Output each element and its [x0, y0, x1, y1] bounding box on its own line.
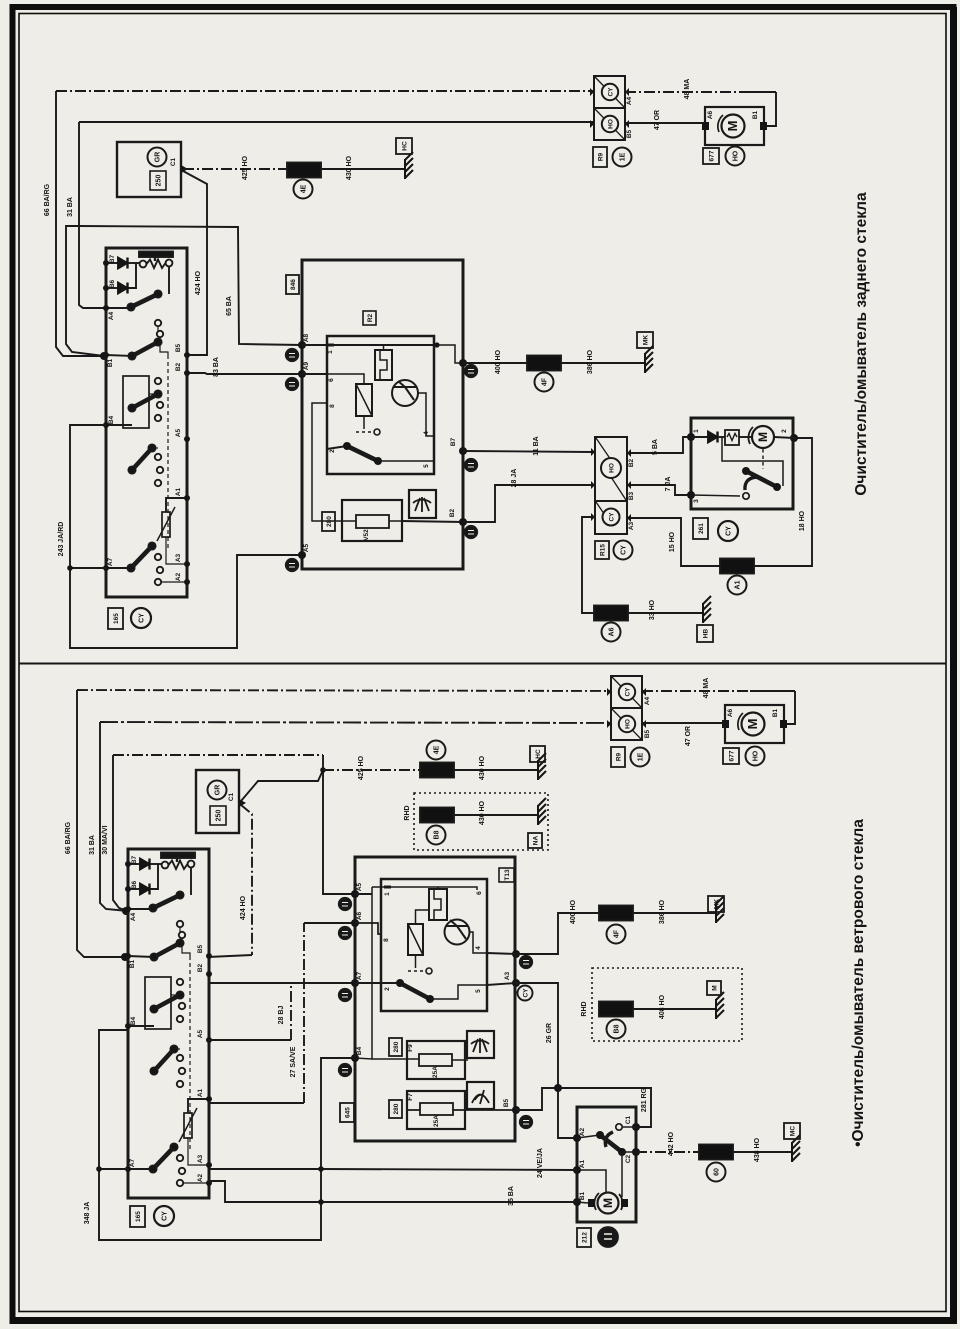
connector circle CY below block [614, 541, 633, 560]
svg-text:M: M [601, 1198, 615, 1208]
wire 400 HO module to ground MK [437, 345, 463, 363]
connector circle GR [208, 781, 227, 800]
wire 15 HO / 18 HO A3 to motor pin2 [631, 518, 721, 566]
relay unit 846 outer box [302, 260, 463, 569]
connector circle CY [154, 1206, 174, 1226]
box label 250 [210, 806, 226, 825]
svg-text:250: 250 [156, 175, 163, 187]
svg-text:243 JA/RD: 243 JA/RD [58, 522, 65, 557]
svg-text:424 HO: 424 HO [195, 270, 202, 295]
svg-text:60: 60 [714, 1168, 721, 1176]
node B1' junction [121, 953, 129, 961]
wire 442 HO C2 to ground MC [636, 1151, 699, 1153]
svg-text:1: 1 [384, 892, 391, 896]
svg-text:5: 5 [423, 464, 430, 468]
svg-text:6: 6 [328, 378, 335, 382]
svg-text:NA: NA [533, 836, 540, 846]
box label R15 [595, 541, 609, 559]
wire 425 HO [183, 168, 287, 170]
svg-text:B5: B5 [626, 129, 633, 138]
box label 250 [150, 171, 166, 190]
relay coil [408, 924, 423, 955]
svg-text:Очиститель/омыватель заднего с: Очиститель/омыватель заднего стекла [853, 192, 870, 496]
wire 83 BA B2 to relay A9 [187, 373, 302, 374]
wire 66 BA/RG vertical to B1 [56, 91, 104, 356]
wire 66 BA/RG dash-dot bus [56, 90, 594, 92]
relay coil [356, 384, 372, 416]
instrument panel 250 [117, 142, 181, 197]
svg-text:65 BA: 65 BA [226, 296, 233, 316]
svg-text:B1: B1 [772, 708, 779, 717]
svg-text:T13: T13 [504, 869, 511, 881]
svg-text:1E: 1E [620, 152, 627, 161]
wire 11 BA B7 to connector [459, 447, 467, 455]
svg-text:C1: C1 [170, 157, 177, 166]
svg-text:CY: CY [609, 512, 616, 522]
wire 47 OR [625, 122, 702, 124]
module pin 2 [355, 982, 381, 984]
svg-text:A9: A9 [303, 361, 310, 370]
wiper icon 2 [467, 1082, 494, 1109]
diode [691, 436, 708, 438]
svg-text:B4: B4 [356, 1046, 363, 1055]
washer jet icon [409, 490, 436, 518]
svg-text:MK: MK [643, 335, 650, 345]
connector R9/1E block bottom [607, 676, 646, 740]
svg-text:4E: 4E [301, 184, 308, 193]
svg-text:4F: 4F [614, 929, 621, 938]
svg-text:281 RG: 281 RG [641, 1087, 648, 1112]
wire 65 BA to relay A8 [79, 226, 302, 345]
svg-text:C1: C1 [625, 1115, 632, 1124]
module pin 8 [355, 923, 381, 934]
svg-text:A5: A5 [303, 543, 310, 552]
svg-text:212: 212 [582, 1232, 589, 1243]
washer pump motor 677' [722, 705, 787, 743]
node A4' junction [122, 907, 130, 915]
wire 424 HO C1 to B5' [241, 805, 252, 955]
wire C1 to 425 HO junction [241, 770, 323, 801]
module top rail [334, 344, 437, 346]
svg-text:A4: A4 [644, 696, 651, 705]
wire 35 BA A2' to B1 [208, 1181, 577, 1202]
node A7' [351, 979, 359, 987]
svg-text:386 HO: 386 HO [659, 899, 666, 924]
node A5 [298, 551, 306, 559]
svg-text:8: 8 [383, 938, 390, 942]
box label 165 [108, 608, 123, 629]
box label 261 [693, 518, 708, 539]
svg-text:24 VE/JA: 24 VE/JA [537, 1148, 544, 1178]
svg-text:C2: C2 [625, 1154, 632, 1163]
wire 31 BA vertical to A4 [79, 122, 106, 308]
svg-text:GR: GR [215, 785, 222, 796]
node B1 junction [100, 352, 108, 360]
module switch arm [381, 982, 400, 984]
svg-text:66 BA/RG: 66 BA/RG [44, 183, 51, 216]
svg-text:A6: A6 [727, 708, 734, 717]
svg-text:A3: A3 [628, 521, 635, 530]
svg-text:408 HO: 408 HO [659, 994, 666, 1019]
connector R9/1E block [590, 76, 629, 140]
module top rail [391, 887, 477, 890]
svg-text:A6: A6 [707, 110, 714, 119]
svg-text:66 BA/RG: 66 BA/RG [65, 821, 72, 854]
svg-text:M: M [756, 432, 770, 442]
wire 425 HO [323, 769, 421, 771]
svg-text:R15: R15 [600, 544, 607, 556]
wire 430 HO to ground [454, 769, 537, 771]
svg-text:7 JA: 7 JA [665, 477, 672, 492]
svg-text:677: 677 [709, 150, 716, 161]
svg-text:B5: B5 [503, 1098, 510, 1107]
column switch 165 [103, 248, 190, 597]
svg-text:35 BA: 35 BA [508, 1186, 515, 1206]
svg-text:B8: B8 [614, 1024, 621, 1033]
svg-text:1E: 1E [638, 752, 645, 761]
ground HC [405, 152, 413, 179]
svg-text:A8: A8 [303, 333, 310, 342]
svg-text:V52: V52 [363, 529, 370, 541]
node A6' [351, 919, 359, 927]
coil to contact dashed [363, 416, 365, 429]
node B5' on edge [512, 1106, 520, 1114]
svg-text:GR: GR [155, 152, 162, 163]
svg-text:CY: CY [162, 1211, 169, 1221]
svg-text:26 GR: 26 GR [546, 1023, 553, 1043]
box label 677 [703, 148, 719, 164]
svg-text:HO: HO [609, 463, 616, 473]
svg-text:430 HO: 430 HO [346, 155, 353, 180]
svg-text:B1: B1 [752, 110, 759, 119]
washer jet icon 1 [467, 1031, 494, 1058]
svg-text:280: 280 [326, 516, 333, 527]
svg-text:B1: B1 [579, 1191, 586, 1200]
motor [752, 426, 774, 448]
coil to contact dashed [415, 955, 417, 968]
fuse F7 [407, 1091, 465, 1129]
svg-text:27 SA/VE: 27 SA/VE [290, 1046, 297, 1077]
svg-text:A4: A4 [626, 96, 633, 105]
module pin 6 [302, 373, 327, 375]
wires inside motor box [577, 1170, 606, 1192]
wiper motor assembly bottom [577, 1107, 636, 1222]
svg-text:B5: B5 [644, 729, 651, 738]
rear wiper motor assembly [691, 418, 793, 509]
svg-text:5: 5 [475, 989, 482, 993]
svg-text:5 BA: 5 BA [652, 439, 659, 455]
svg-text:47 OR: 47 OR [685, 726, 692, 746]
node A8 [298, 341, 306, 349]
box label 165 [130, 1206, 145, 1227]
wire loop to pump [767, 92, 776, 126]
RHD variant box 2 [592, 968, 742, 1041]
module switch arm [327, 446, 347, 449]
wire branch to B1 junction [66, 226, 104, 356]
svg-text:165: 165 [135, 1211, 142, 1222]
wire 27 SA/VE A1' to relay A6' [208, 1102, 304, 1104]
svg-text:•Очиститель/омыватель ветровог: •Очиститель/омыватель ветрового стекла [850, 819, 867, 1147]
svg-text:846: 846 [290, 279, 297, 290]
wire 66 BA/RG vertical to B1 [77, 690, 125, 957]
splice B8 RHD [420, 808, 454, 823]
wire 348 JA ground loop B4-A7-B4' [99, 1030, 355, 1240]
svg-text:31 BA: 31 BA [89, 835, 96, 855]
node B4' [351, 1054, 359, 1062]
transistor to pin 4 [418, 393, 434, 436]
svg-text:R2: R2 [367, 313, 374, 322]
module pin 1 [355, 893, 372, 895]
svg-text:31 BA: 31 BA [67, 197, 74, 217]
box label 677 [723, 748, 739, 764]
svg-text:4F: 4F [542, 377, 549, 386]
relay module R2 inner box [327, 336, 434, 474]
box label 212 [577, 1228, 591, 1247]
svg-text:A3: A3 [504, 971, 511, 980]
wire 28 JA B2 to connector [402, 521, 463, 522]
svg-text:165: 165 [113, 613, 120, 624]
washer pump motor 677 [702, 107, 767, 145]
svg-text:1: 1 [327, 350, 334, 354]
box label 846 [286, 275, 299, 294]
svg-text:R9: R9 [616, 752, 623, 761]
svg-text:CY: CY [523, 988, 530, 998]
column switch 165' [125, 849, 212, 1198]
svg-text:48 MA: 48 MA [684, 79, 691, 100]
svg-text:400 HO: 400 HO [570, 899, 577, 924]
wire 31 BA bus [100, 722, 611, 723]
wire 66 BA/RG dash-dot bus [77, 690, 611, 691]
wire 28 BJ A5' to relay A7' [208, 1039, 291, 1041]
svg-text:HO: HO [733, 150, 740, 161]
svg-text:6: 6 [476, 891, 483, 895]
svg-text:M: M [712, 985, 719, 990]
svg-text:442 HO: 442 HO [668, 1131, 675, 1156]
svg-text:A2: A2 [579, 1127, 586, 1136]
park contact + arm [616, 1124, 622, 1130]
park switch [722, 437, 783, 486]
timer IC symbol [429, 889, 447, 920]
svg-text:CY: CY [621, 545, 628, 555]
svg-text:1: 1 [693, 429, 700, 433]
svg-text:C1: C1 [228, 792, 235, 801]
transistor to pin 4 [469, 932, 487, 953]
harness connector block mid [595, 437, 627, 534]
svg-text:28 JA: 28 JA [511, 469, 518, 488]
wire 48 MA dash-dot [642, 690, 750, 692]
internal feed vertical [355, 887, 372, 1059]
svg-text:430 HO: 430 HO [479, 755, 486, 780]
wire 47 OR [642, 722, 722, 724]
svg-text:250: 250 [216, 810, 223, 822]
svg-text:261: 261 [698, 523, 705, 534]
svg-text:280: 280 [393, 1103, 400, 1114]
thermal element [718, 436, 725, 438]
wire A7 stub [70, 567, 106, 569]
svg-text:83 BA: 83 BA [213, 357, 220, 377]
relay unit 645 outer box [355, 857, 515, 1141]
motor M [598, 1193, 619, 1214]
svg-text:2: 2 [781, 429, 788, 433]
svg-text:CY: CY [139, 613, 146, 623]
svg-text:R9: R9 [598, 152, 605, 161]
wire 400 HO pin4 to ground MK [512, 950, 520, 958]
svg-text:47 OR: 47 OR [654, 110, 661, 130]
wire loop to pump [787, 691, 795, 724]
svg-text:677: 677 [729, 750, 736, 761]
svg-text:25A: 25A [432, 1066, 439, 1078]
svg-text:A1: A1 [579, 1159, 586, 1168]
box label 280 [322, 512, 335, 531]
svg-text:18 HO: 18 HO [799, 510, 806, 531]
svg-text:348 JA: 348 JA [84, 1202, 91, 1225]
wire 30 MA/VI [113, 754, 323, 756]
svg-text:425 HO: 425 HO [358, 755, 365, 780]
svg-text:RHD: RHD [404, 805, 411, 820]
svg-text:HC: HC [535, 749, 542, 759]
svg-text:B2: B2 [628, 458, 635, 467]
wire 33 HO to ground HB [582, 517, 595, 613]
pin 8 channel to washer pump [312, 403, 342, 521]
svg-text:A6: A6 [609, 627, 616, 636]
svg-text:280: 280 [393, 1041, 400, 1052]
svg-text:CY: CY [726, 526, 733, 536]
box label R2 [363, 311, 376, 325]
wire 7 JA to wiper motor pin3 [631, 485, 691, 495]
connector circle CY [131, 608, 151, 628]
wire 24 VE/JA A3' to A1 [208, 1169, 577, 1170]
svg-text:MC: MC [790, 1126, 797, 1136]
svg-text:15 HO: 15 HO [669, 531, 676, 552]
box label 645 [340, 1103, 354, 1122]
wire B5 to 26GR junction [516, 1088, 558, 1110]
half divider [19, 663, 946, 665]
svg-text:8: 8 [329, 404, 336, 408]
svg-text:RHD: RHD [581, 1001, 588, 1016]
svg-text:425 HO: 425 HO [242, 155, 249, 180]
svg-text:F7: F7 [407, 1093, 414, 1101]
connector circle GR [148, 148, 167, 167]
svg-text:MK: MK [714, 899, 721, 909]
svg-text:430 HO: 430 HO [479, 800, 486, 825]
box label T13 [499, 868, 514, 882]
svg-text:A6: A6 [356, 911, 363, 920]
node A5' [351, 890, 359, 898]
wire 31 BA bus [79, 121, 594, 123]
svg-text:645: 645 [345, 1107, 352, 1118]
splice 4E' [420, 763, 454, 778]
svg-text:HC: HC [402, 141, 409, 151]
transistor [392, 380, 418, 406]
wire 31 BA vertical to A4 [100, 722, 128, 911]
svg-text:A1: A1 [735, 580, 742, 589]
svg-text:386 HO: 386 HO [587, 349, 594, 374]
wire 424 HO C1 to B5 [183, 171, 207, 355]
transistor [445, 920, 470, 945]
node A9 [298, 370, 306, 378]
splice 4E [287, 163, 321, 178]
svg-text:400 HO: 400 HO [495, 349, 502, 374]
ground HC' [538, 753, 546, 780]
svg-text:11 BA: 11 BA [533, 436, 540, 455]
svg-text:HB: HB [703, 629, 710, 639]
relay module inner box [381, 879, 487, 1011]
svg-text:438 HO: 438 HO [754, 1137, 761, 1162]
svg-text:A7: A7 [356, 971, 363, 980]
wire 48 MA dash-dot [625, 91, 740, 93]
svg-text:HO: HO [753, 750, 760, 761]
wire 26 GR pin5/A3 down to motor [512, 979, 520, 987]
module pin 1 [302, 344, 327, 346]
timer IC symbol [375, 350, 392, 380]
wire 30 MA/VI vertical to relay A5 [323, 755, 355, 894]
svg-text:4: 4 [475, 946, 482, 950]
fuse F9 [407, 1041, 465, 1079]
wire 5 BA to wiper motor pin1 [631, 437, 691, 453]
svg-text:A5: A5 [356, 882, 363, 891]
svg-text:25A: 25A [433, 1115, 440, 1127]
svg-text:424 HO: 424 HO [240, 895, 247, 920]
svg-text:B7: B7 [450, 437, 457, 446]
instrument panel 250 [196, 770, 239, 833]
svg-text:28 BJ: 28 BJ [278, 1006, 285, 1025]
RHD variant box top [414, 793, 548, 850]
wire 430 HO RHD to ground [454, 814, 537, 816]
wire 281 RG to C1 [558, 1088, 651, 1127]
svg-text:30 MA/VI: 30 MA/VI [102, 825, 109, 854]
wire A7' stub [99, 1168, 128, 1170]
svg-text:48 MA: 48 MA [703, 678, 710, 699]
svg-text:4E: 4E [434, 745, 441, 754]
svg-text:3: 3 [693, 499, 700, 503]
svg-text:B3: B3 [628, 491, 635, 500]
wire 243 JA/RD ground loop B4-A7-A5 [70, 425, 302, 648]
svg-text:B8: B8 [434, 830, 441, 839]
svg-text:2: 2 [384, 987, 391, 991]
svg-text:F9: F9 [407, 1044, 414, 1052]
washer pump V52 [342, 500, 402, 541]
wire 430 HO to ground [321, 168, 404, 170]
svg-text:B2: B2 [449, 508, 456, 517]
svg-text:33 HO: 33 HO [649, 599, 656, 620]
